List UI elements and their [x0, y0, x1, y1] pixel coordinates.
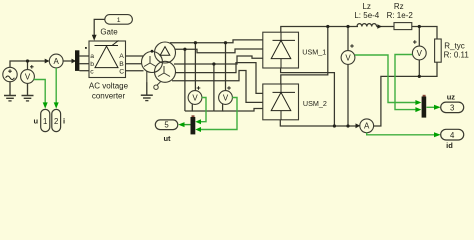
svg-text:USM_2: USM_2 — [303, 99, 327, 108]
svg-text:4: 4 — [450, 131, 455, 140]
svg-text:uz: uz — [447, 93, 456, 102]
svg-text:1: 1 — [117, 17, 121, 24]
svg-text:u: u — [34, 117, 39, 126]
svg-text:USM_1: USM_1 — [302, 48, 326, 57]
svg-text:c: c — [90, 69, 94, 76]
svg-text:3: 3 — [450, 103, 454, 112]
svg-text:R_tyc: R_tyc — [444, 42, 464, 51]
svg-text:Gate: Gate — [100, 27, 118, 36]
svg-text:L: 5e-4: L: 5e-4 — [354, 11, 379, 20]
svg-text:id: id — [446, 141, 453, 150]
svg-text:5: 5 — [164, 121, 169, 130]
svg-text:AC voltage: AC voltage — [89, 82, 129, 91]
svg-text:B: B — [119, 61, 124, 68]
svg-text:b: b — [90, 61, 94, 68]
svg-text:ut: ut — [163, 134, 171, 143]
svg-text:Rz: Rz — [394, 2, 404, 11]
svg-text:C: C — [119, 69, 124, 76]
svg-text:i: i — [63, 117, 65, 126]
svg-text:2: 2 — [54, 117, 58, 126]
svg-text:R: 0.11: R: 0.11 — [444, 51, 470, 60]
svg-text:converter: converter — [92, 91, 126, 100]
svg-text:1: 1 — [43, 117, 47, 126]
svg-text:R: 1e-2: R: 1e-2 — [387, 11, 414, 20]
svg-text:Lz: Lz — [362, 2, 370, 11]
svg-text:A: A — [119, 53, 124, 60]
svg-text:a: a — [90, 53, 94, 60]
